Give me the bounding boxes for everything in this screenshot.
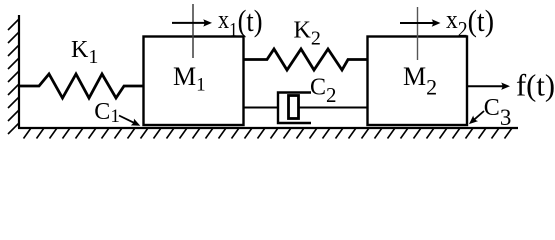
damper C2 [243,93,367,124]
svg-text:C1: C1 [94,99,120,127]
mass M2 [368,37,468,126]
label C2 [310,75,337,108]
label x2(t) [446,3,494,42]
label C3 [484,95,512,130]
wall [8,15,19,134]
ground [18,128,518,139]
label f(t) [516,68,555,103]
svg-text:C2: C2 [310,75,337,108]
label x1(t) [218,3,263,41]
label M2 [403,62,437,100]
svg-text:f(t): f(t) [516,68,555,103]
spring K2 [243,49,367,70]
force arrow f [467,83,510,90]
mass M1 [144,37,244,126]
svg-text:C3: C3 [484,95,512,130]
svg-text:K2: K2 [294,18,321,50]
displacement arrow x1 [172,19,212,26]
label K2 [294,18,321,50]
label M1 [173,62,206,96]
damper C3 arrow [467,111,484,127]
displacement arrow x2 [400,19,441,26]
reference tick M1 [192,4,194,58]
svg-text:K1: K1 [71,37,98,68]
damper C1 arrow [119,116,142,130]
spring K1 [19,74,144,98]
reference tick M2 [417,7,419,60]
label K1 [71,37,98,68]
label C1 [94,99,120,127]
